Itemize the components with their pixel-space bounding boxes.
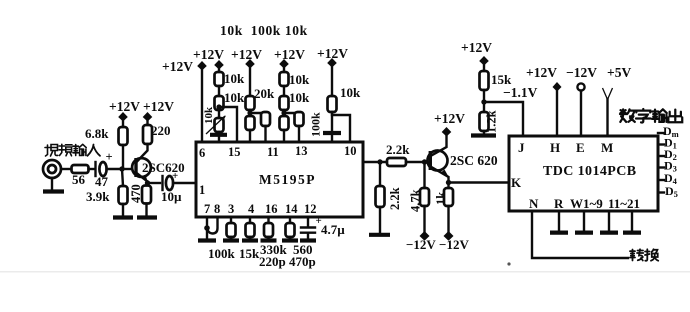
svg-text:10k: 10k bbox=[224, 90, 245, 105]
resistor R 6.8k bbox=[85, 126, 128, 145]
ground under 2.2k bbox=[369, 233, 390, 237]
ground under 470 bbox=[137, 215, 157, 219]
wire 15k to node F bbox=[483, 90, 485, 112]
resistor R 470 bbox=[129, 184, 151, 203]
svg-text:+: + bbox=[106, 150, 113, 164]
resistor R 15k pin 4 bbox=[239, 217, 260, 261]
wire 2.2k to Q2 base bbox=[406, 161, 429, 163]
node D base junction bbox=[422, 159, 427, 164]
wire branch B to IC top bbox=[218, 132, 220, 142]
bar under branch E bbox=[323, 131, 341, 135]
connector J1 video jack bbox=[43, 160, 61, 178]
resistor R 15k bias bbox=[480, 71, 513, 90]
wire branch A to pin 6 bbox=[201, 68, 203, 142]
svg-text:20k: 20k bbox=[254, 86, 275, 101]
+12V supply arrow left1 bbox=[109, 99, 140, 127]
ground under 15k bbox=[242, 238, 258, 242]
wire RD1 to RD2 bbox=[283, 86, 285, 96]
op-amp IC U1 M5195P box bbox=[196, 142, 363, 217]
svg-text:+12V: +12V bbox=[461, 40, 492, 55]
svg-text:+12V: +12V bbox=[109, 99, 140, 114]
resistor RD4 bbox=[280, 116, 289, 130]
wire N pin to convert bbox=[532, 211, 628, 258]
+12V supply H pin bbox=[526, 65, 562, 136]
wire node F to J pin bbox=[484, 102, 523, 136]
+12V supply 15k branch bbox=[461, 40, 492, 71]
svg-text:11~21: 11~21 bbox=[608, 196, 640, 211]
svg-text:10µ: 10µ bbox=[161, 189, 182, 204]
node C junction bbox=[377, 159, 382, 164]
svg-text:+5V: +5V bbox=[607, 65, 631, 80]
ground under 1.2k bbox=[471, 133, 496, 137]
resistor RC3 bbox=[246, 116, 255, 130]
svg-text:7: 7 bbox=[204, 202, 210, 216]
wire RD3 to IC top bbox=[298, 126, 300, 142]
output Dm bbox=[658, 124, 679, 139]
transistor Q1 2SC620 bbox=[132, 144, 185, 183]
svg-text:10k 100k 10k: 10k 100k 10k bbox=[220, 23, 308, 38]
wire 3.9k to ground bbox=[122, 204, 124, 216]
output D3 bbox=[658, 159, 677, 174]
wire C10u to IC pin 1 bbox=[173, 182, 196, 184]
resistor RD2 10k bbox=[280, 90, 311, 110]
svg-text:M: M bbox=[601, 140, 613, 155]
svg-text:1k: 1k bbox=[434, 192, 448, 205]
svg-text:N: N bbox=[529, 196, 539, 211]
svg-text:+12V: +12V bbox=[274, 47, 305, 62]
svg-text:M5195P: M5195P bbox=[259, 172, 316, 187]
wire 6.8k to node A bbox=[122, 145, 124, 169]
svg-text:J: J bbox=[518, 140, 525, 155]
resistor RC2 bbox=[261, 112, 270, 126]
wire RD4 to IC top bbox=[283, 130, 285, 142]
ground under pin 7 bbox=[198, 238, 216, 242]
wire pin 7 down bbox=[206, 217, 208, 239]
svg-text:15k: 15k bbox=[239, 246, 260, 261]
node E emitter junction bbox=[446, 180, 451, 185]
svg-text:10k: 10k bbox=[340, 85, 361, 100]
svg-text:+12V: +12V bbox=[434, 111, 465, 126]
svg-text:1.2k: 1.2k bbox=[485, 110, 499, 133]
+12V supply branch E bbox=[317, 46, 348, 96]
resistor RB2 10k bbox=[215, 90, 246, 110]
output D4 bbox=[658, 171, 678, 186]
svg-text:56: 56 bbox=[72, 172, 86, 187]
resistor RC1 20k bbox=[246, 86, 276, 110]
svg-text:10k: 10k bbox=[203, 106, 215, 124]
resistor R 4.7k bbox=[409, 162, 430, 232]
svg-text:10k: 10k bbox=[289, 90, 310, 105]
ground under 560 bbox=[282, 238, 298, 242]
wire emitter to C10u bbox=[148, 182, 161, 184]
wire pin 10 out bbox=[363, 161, 387, 163]
wire RB junction to pin 15 bbox=[219, 107, 237, 142]
svg-text:−12V: −12V bbox=[566, 65, 597, 80]
node B emitter junction bbox=[145, 180, 150, 185]
wire R56 to C47 bbox=[89, 168, 96, 170]
svg-text:H: H bbox=[550, 140, 560, 155]
ground under 100k bbox=[223, 238, 239, 242]
svg-text:15: 15 bbox=[228, 145, 241, 159]
svg-text:6: 6 bbox=[199, 146, 205, 160]
bar under branch B bbox=[210, 133, 227, 137]
resistor RE1 10k bbox=[328, 85, 362, 112]
-12V supply arrow under 4.7k bbox=[420, 231, 430, 241]
node RD junction bbox=[281, 110, 286, 115]
wire bar to IC top bbox=[331, 135, 333, 142]
resistor RB1 10k bbox=[215, 71, 246, 86]
svg-text:+12V: +12V bbox=[143, 99, 174, 114]
wire 470 to ground bbox=[145, 204, 147, 217]
wire emitter to K pin bbox=[449, 181, 510, 183]
svg-text:13: 13 bbox=[295, 144, 308, 158]
resistor R 220 bbox=[143, 123, 171, 144]
svg-text:10: 10 bbox=[344, 144, 357, 158]
capacitor C 4.7u pin 12 bbox=[301, 215, 345, 239]
svg-text:+: + bbox=[172, 170, 178, 182]
output D1 bbox=[658, 136, 677, 151]
output D2 bbox=[658, 147, 677, 162]
node A junction bbox=[119, 166, 124, 171]
ground under jack bbox=[43, 189, 64, 193]
node RC junction bbox=[247, 110, 252, 115]
svg-text:1: 1 bbox=[199, 183, 205, 197]
resistor R 3.9k bbox=[86, 169, 128, 204]
svg-text:10k: 10k bbox=[224, 71, 245, 86]
ground stub TDC 1 bbox=[550, 211, 568, 233]
svg-text:16: 16 bbox=[265, 202, 278, 216]
svg-text:TDC 1014PCB: TDC 1014PCB bbox=[543, 164, 636, 179]
+12V supply arrow Q2 bbox=[434, 111, 465, 137]
scan streak artifact bbox=[0, 271, 690, 273]
svg-text:W1~9: W1~9 bbox=[570, 196, 603, 211]
wire RB1 to RB2 bbox=[218, 86, 220, 96]
svg-text:4.7k: 4.7k bbox=[409, 189, 423, 212]
resistor R 2.2k shunt bbox=[376, 162, 403, 233]
svg-text:8: 8 bbox=[214, 202, 220, 216]
resistor RD3 bbox=[295, 112, 304, 126]
label 数字输出 (digital output) bbox=[620, 109, 682, 123]
wire C47 to node A bbox=[107, 168, 124, 170]
wire jack to R 56 bbox=[61, 168, 71, 170]
+12V supply branch C bbox=[231, 47, 262, 96]
node F junction bbox=[481, 99, 486, 104]
wire RD junction right bbox=[284, 110, 299, 113]
svg-text:2.2k: 2.2k bbox=[386, 142, 410, 157]
transistor Q2 2SC620 bbox=[428, 136, 498, 182]
svg-text:+12V: +12V bbox=[526, 65, 557, 80]
resistor R 560 capacitor 470p pin 14 bbox=[286, 217, 316, 269]
svg-text:220: 220 bbox=[151, 123, 171, 138]
resistor R 1k bbox=[434, 183, 453, 233]
resistor R 330k capacitor 220p pin 16 bbox=[259, 217, 288, 269]
wire RE1 down bbox=[331, 115, 333, 131]
+12V supply branch D bbox=[274, 47, 305, 72]
resistor R 100k pin 3 bbox=[208, 217, 236, 261]
wire RE1 to pin 10 bbox=[332, 112, 350, 142]
wire hook pin 8 to pin 7 bbox=[207, 217, 218, 234]
svg-text:10k: 10k bbox=[289, 72, 310, 87]
svg-text:100k: 100k bbox=[208, 246, 236, 261]
+12V supply branch B bbox=[193, 47, 224, 72]
svg-text:470: 470 bbox=[129, 184, 143, 203]
resistor R 1.2k bbox=[480, 110, 499, 134]
-12V supply E pin bbox=[566, 65, 597, 136]
output D5 bbox=[658, 184, 678, 199]
wire RC2 to IC top bbox=[264, 126, 266, 142]
svg-text:47: 47 bbox=[95, 174, 109, 189]
svg-text:+12V: +12V bbox=[193, 47, 224, 62]
+12V supply arrow left2 bbox=[143, 99, 174, 125]
ground stub TDC 2 bbox=[575, 211, 593, 233]
label 视频输入 (video input) bbox=[45, 144, 100, 156]
-12V supply arrow under 1k bbox=[444, 231, 454, 241]
label 转换 (convert) bbox=[630, 249, 658, 260]
svg-text:3.9k: 3.9k bbox=[86, 189, 110, 204]
svg-text:4: 4 bbox=[248, 202, 255, 216]
svg-text:−1.1V: −1.1V bbox=[503, 85, 538, 100]
speck artifact 1 bbox=[507, 262, 510, 265]
svg-text:11: 11 bbox=[267, 145, 279, 159]
svg-text:K: K bbox=[511, 175, 522, 190]
node pin7 junction bbox=[204, 225, 210, 231]
capacitor C 47 electrolytic bbox=[95, 150, 113, 189]
trimmer RB3 10k bbox=[203, 106, 226, 134]
wire node A to Q1 base bbox=[122, 168, 134, 170]
ground under 330k bbox=[261, 238, 277, 242]
wire RC junction right bbox=[250, 110, 266, 113]
resistor 56 bbox=[72, 165, 89, 187]
ground stub TDC 4 bbox=[623, 211, 641, 233]
svg-text:12: 12 bbox=[304, 202, 317, 216]
ground under 4.7u bbox=[300, 238, 316, 242]
resistor RD1 10k bbox=[280, 72, 311, 87]
svg-text:+12V: +12V bbox=[162, 59, 193, 74]
svg-text:100k: 100k bbox=[309, 112, 323, 137]
ADC IC U2 TDC1014PCB box bbox=[509, 136, 658, 211]
svg-text:4.7µ: 4.7µ bbox=[321, 222, 345, 237]
svg-text:3: 3 bbox=[228, 202, 234, 216]
+5V supply M pin bbox=[603, 65, 632, 136]
ground stub TDC 3 bbox=[600, 211, 618, 233]
node RB junction bbox=[216, 104, 221, 109]
+12V supply branch A bbox=[162, 59, 207, 74]
svg-text:2SC 620: 2SC 620 bbox=[450, 153, 498, 168]
svg-text:470p: 470p bbox=[289, 254, 316, 269]
svg-text:E: E bbox=[576, 140, 585, 155]
svg-text:2.2k: 2.2k bbox=[388, 187, 402, 210]
svg-text:14: 14 bbox=[285, 202, 298, 216]
svg-text:R: R bbox=[554, 196, 564, 211]
capacitor C 10u electrolytic bbox=[161, 170, 182, 204]
resistor R 2.2k series bbox=[386, 142, 410, 166]
svg-text:+12V: +12V bbox=[231, 47, 262, 62]
svg-text:−12V −12V: −12V −12V bbox=[406, 237, 469, 252]
ground under 3.9k bbox=[113, 215, 133, 219]
wire jack to ground bbox=[51, 178, 53, 189]
wire RC3 to IC top bbox=[249, 130, 251, 142]
svg-text:6.8k: 6.8k bbox=[85, 126, 109, 141]
svg-text:220p: 220p bbox=[259, 254, 286, 269]
